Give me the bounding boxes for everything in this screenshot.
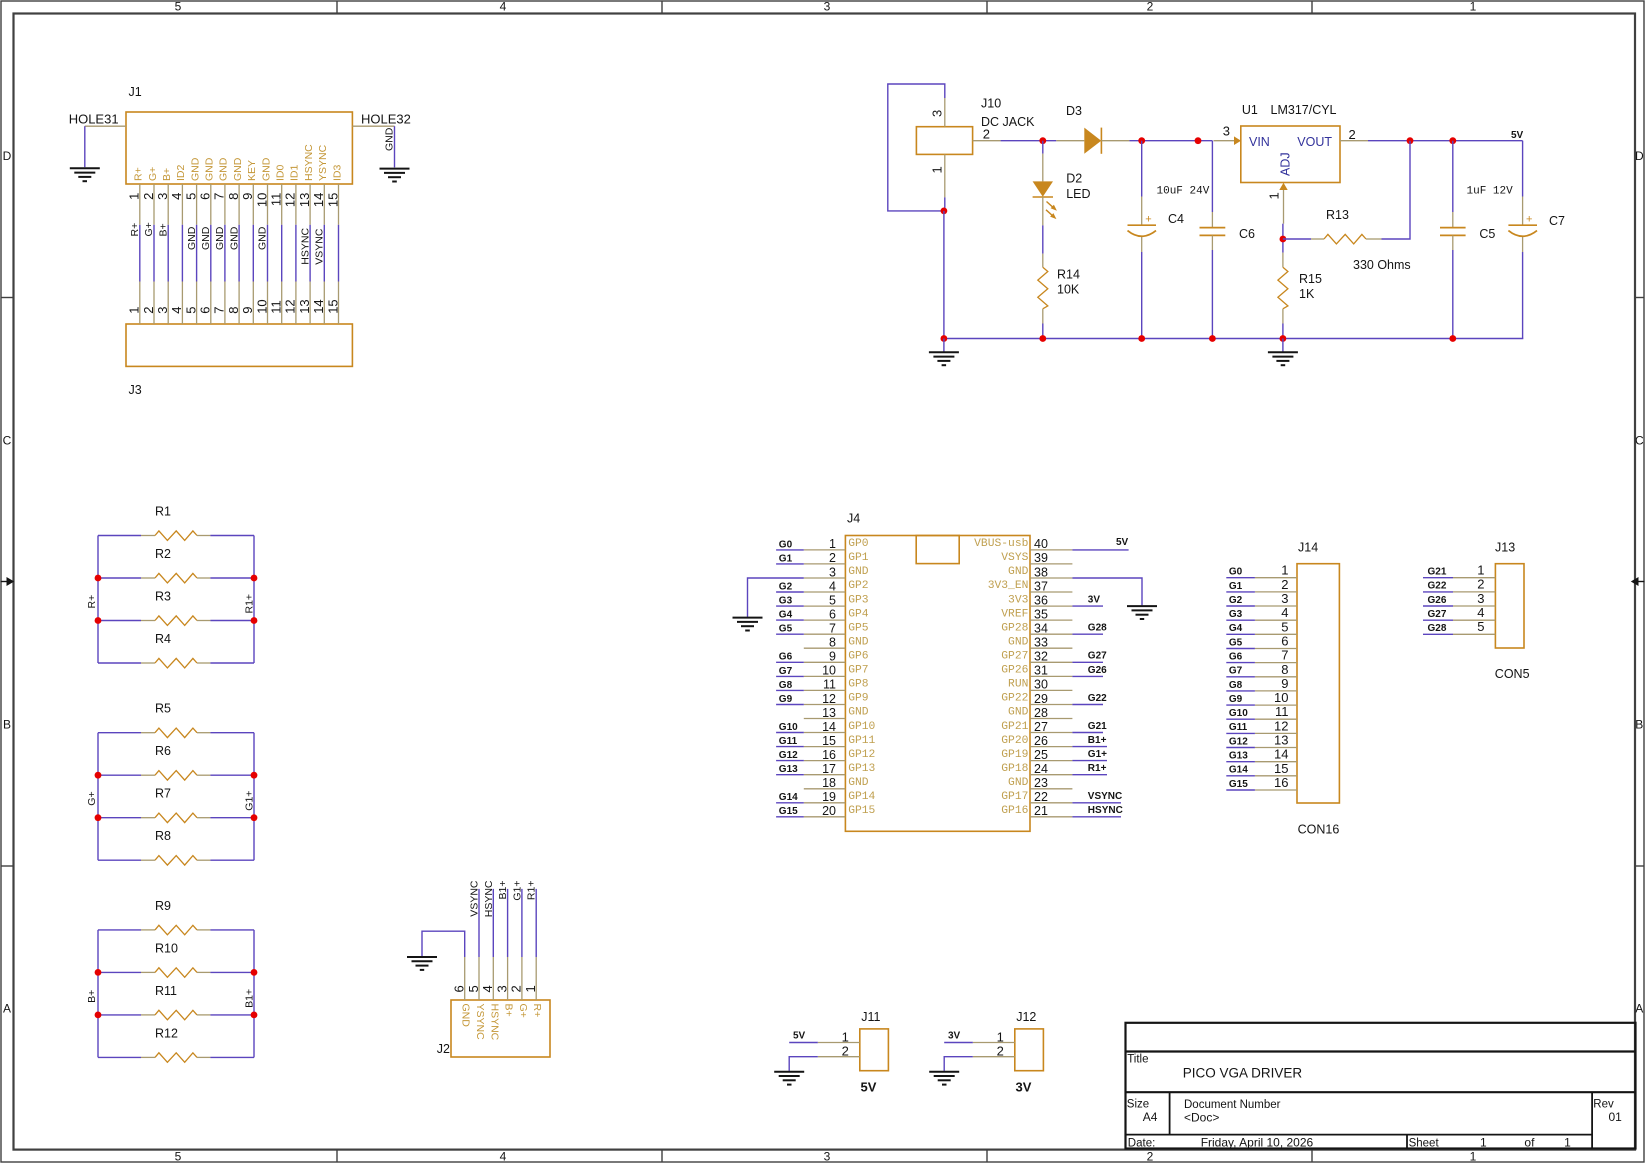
svg-text:G5: G5	[1229, 637, 1243, 648]
J13 net wires	[1423, 578, 1453, 635]
J2 pins 6-1	[452, 957, 539, 1000]
svg-text:5: 5	[175, 0, 182, 14]
svg-text:G9: G9	[1229, 694, 1243, 705]
svg-text:G15: G15	[1229, 779, 1248, 790]
svg-text:GND: GND	[218, 157, 230, 181]
junction right R9-R12	[251, 1012, 258, 1019]
svg-text:GND: GND	[257, 226, 269, 250]
svg-text:ID0: ID0	[275, 165, 287, 182]
wire J4 pin40 5V	[1072, 549, 1128, 551]
svg-text:GP1: GP1	[848, 552, 869, 564]
resistor R2	[98, 547, 254, 583]
capacitor C5	[1440, 141, 1495, 250]
svg-text:G6: G6	[779, 652, 793, 663]
J14 net labels	[1229, 567, 1248, 790]
wire C5 to rail	[1452, 250, 1454, 339]
svg-text:G28: G28	[1428, 623, 1447, 634]
svg-text:27: 27	[1034, 720, 1048, 734]
wire J11 pin2 to ground	[789, 1057, 818, 1071]
svg-text:C6: C6	[1239, 227, 1255, 241]
wire D2 to R14	[1042, 225, 1044, 253]
svg-text:R+: R+	[86, 595, 98, 609]
svg-text:VSYNC: VSYNC	[314, 228, 326, 265]
svg-text:Size: Size	[1127, 1099, 1149, 1111]
junction C4 top	[1138, 137, 1145, 144]
svg-text:GP26: GP26	[1001, 665, 1028, 677]
svg-text:GND: GND	[848, 707, 869, 719]
svg-text:D: D	[1635, 149, 1644, 163]
svg-text:B+: B+	[157, 223, 169, 236]
wire J12 pin1 3V	[944, 1042, 973, 1044]
svg-text:B: B	[3, 717, 11, 731]
svg-text:GND: GND	[460, 1004, 472, 1028]
svg-text:GP2: GP2	[848, 580, 868, 592]
svg-text:3: 3	[1223, 124, 1230, 139]
svg-text:3: 3	[155, 193, 170, 200]
svg-text:10K: 10K	[1057, 283, 1080, 297]
svg-text:A: A	[3, 1002, 11, 1016]
svg-text:R1+: R1+	[526, 881, 538, 901]
svg-text:GND: GND	[189, 157, 201, 181]
svg-text:C5: C5	[1479, 227, 1495, 241]
svg-text:ID2: ID2	[175, 165, 187, 182]
svg-text:J1: J1	[129, 85, 142, 99]
svg-text:4: 4	[1281, 605, 1288, 620]
junction rail/J10	[941, 335, 948, 342]
svg-text:G+: G+	[143, 222, 155, 236]
svg-text:9: 9	[829, 650, 836, 664]
svg-text:GP5: GP5	[848, 622, 869, 634]
svg-text:B+: B+	[503, 1004, 515, 1017]
svg-text:D2: D2	[1066, 172, 1082, 186]
J1-J3 wires	[140, 225, 339, 282]
svg-text:GP15: GP15	[848, 805, 875, 817]
J1-J3 net labels	[129, 222, 326, 265]
svg-text:G28: G28	[1088, 623, 1107, 634]
svg-text:4: 4	[480, 985, 495, 992]
svg-text:R1: R1	[155, 505, 171, 519]
ground at J4 pin3	[733, 618, 763, 631]
svg-text:HSYNC: HSYNC	[1088, 805, 1123, 816]
svg-text:22: 22	[1034, 790, 1048, 804]
svg-text:A4: A4	[1143, 1110, 1158, 1124]
svg-text:11: 11	[1275, 704, 1289, 719]
resistor group R1-R4	[98, 536, 254, 664]
svg-text:2: 2	[842, 1044, 849, 1059]
wire C4 to rail	[1141, 252, 1143, 339]
svg-text:GND: GND	[1008, 707, 1029, 719]
connector J13 CON5	[1495, 541, 1530, 682]
svg-text:10: 10	[822, 664, 836, 678]
svg-text:11: 11	[269, 193, 284, 207]
resistor group R5-R8	[98, 733, 254, 861]
svg-text:9: 9	[240, 193, 255, 200]
svg-text:GND: GND	[383, 127, 395, 151]
svg-text:Date:: Date:	[1128, 1137, 1156, 1149]
svg-text:15: 15	[325, 299, 340, 313]
svg-text:23: 23	[1034, 776, 1048, 790]
wire R14 to rail	[1042, 324, 1044, 339]
svg-text:R7: R7	[155, 787, 171, 801]
svg-text:G7: G7	[779, 666, 793, 677]
svg-text:B1+: B1+	[497, 881, 509, 900]
svg-text:KEY: KEY	[246, 160, 258, 181]
svg-text:34: 34	[1034, 622, 1048, 636]
svg-text:1: 1	[1470, 0, 1477, 14]
svg-text:CON16: CON16	[1298, 823, 1340, 837]
svg-text:2: 2	[509, 985, 524, 992]
svg-text:5V: 5V	[861, 1080, 877, 1095]
junction C6 top	[1195, 137, 1202, 144]
svg-text:G15: G15	[779, 806, 798, 817]
svg-text:G2: G2	[1229, 595, 1243, 606]
svg-text:GND: GND	[204, 157, 216, 181]
module J4 Pico	[845, 512, 1030, 832]
svg-text:VSYNC: VSYNC	[1088, 791, 1122, 802]
svg-text:R10: R10	[155, 941, 178, 955]
junction ADJ node	[1280, 236, 1287, 243]
wire VOUT rail	[1368, 140, 1523, 142]
svg-text:GND: GND	[214, 226, 226, 250]
svg-text:GP9: GP9	[848, 693, 868, 705]
svg-text:5: 5	[175, 1150, 182, 1163]
svg-text:J3: J3	[129, 383, 142, 397]
svg-text:5: 5	[183, 193, 198, 200]
svg-text:9: 9	[1281, 676, 1288, 691]
junction rail/C5	[1449, 335, 1456, 342]
svg-text:G1+: G1+	[244, 791, 256, 811]
LED D2	[1033, 141, 1091, 226]
svg-text:40: 40	[1034, 537, 1048, 551]
svg-text:GP8: GP8	[848, 679, 869, 691]
svg-text:4: 4	[169, 193, 184, 200]
svg-text:G21: G21	[1428, 567, 1447, 578]
wire J10 pin2 to D3	[1001, 140, 1057, 142]
svg-text:G14: G14	[1229, 765, 1248, 776]
svg-text:R+: R+	[129, 223, 141, 237]
svg-text:GND: GND	[848, 566, 869, 578]
svg-text:1: 1	[997, 1030, 1004, 1045]
svg-text:2: 2	[1147, 1150, 1154, 1163]
connector J3	[126, 324, 352, 397]
junction left R9-R12	[95, 969, 102, 976]
svg-text:G1+: G1+	[1088, 749, 1107, 760]
junction R13 feedback	[1407, 137, 1414, 144]
svg-text:HSYNC: HSYNC	[299, 228, 311, 265]
regulator U1 LM317/CYL	[1214, 103, 1369, 224]
svg-text:GP3: GP3	[848, 594, 869, 606]
svg-text:G8: G8	[1229, 680, 1243, 691]
resistor R12	[98, 1026, 254, 1062]
svg-text:10uF 24V: 10uF 24V	[1157, 186, 1210, 198]
svg-text:J14: J14	[1298, 541, 1318, 555]
svg-text:8: 8	[1281, 662, 1288, 677]
svg-text:14: 14	[822, 720, 836, 734]
svg-text:GND: GND	[848, 777, 869, 789]
svg-text:GP10: GP10	[848, 721, 875, 733]
svg-text:5: 5	[1477, 619, 1484, 634]
svg-text:G+: G+	[147, 167, 159, 181]
svg-text:G14: G14	[779, 792, 798, 803]
svg-text:32: 32	[1034, 650, 1048, 664]
svg-text:J13: J13	[1495, 541, 1515, 555]
svg-text:1: 1	[1480, 1135, 1487, 1149]
resistor R6	[98, 744, 254, 780]
svg-text:10: 10	[254, 299, 269, 313]
svg-text:16: 16	[1274, 775, 1288, 790]
svg-text:1: 1	[1564, 1135, 1571, 1149]
svg-text:29: 29	[1034, 692, 1048, 706]
svg-text:B: B	[1635, 717, 1643, 731]
svg-text:J10: J10	[981, 97, 1001, 111]
svg-text:Friday, April 10, 2026: Friday, April 10, 2026	[1201, 1135, 1314, 1149]
svg-text:8: 8	[226, 193, 241, 200]
svg-text:Title: Title	[1127, 1053, 1148, 1065]
connector J2	[437, 1000, 550, 1057]
svg-text:G6: G6	[1229, 652, 1243, 663]
junction rail/C6	[1209, 335, 1216, 342]
junction right R5-R8	[251, 772, 258, 779]
svg-text:3V: 3V	[1088, 595, 1101, 606]
svg-text:G5: G5	[779, 624, 793, 635]
svg-text:12: 12	[822, 692, 836, 706]
svg-text:R11: R11	[155, 984, 177, 998]
J14 pins 1-16	[1255, 563, 1297, 790]
svg-text:6: 6	[1281, 634, 1288, 649]
wire C6 to rail	[1211, 250, 1213, 339]
junction J10 pin1/pin3	[941, 208, 948, 215]
wire J4 pin38 to ground	[1072, 578, 1142, 605]
svg-text:5: 5	[466, 985, 481, 992]
svg-text:13: 13	[1274, 733, 1288, 748]
svg-text:CON5: CON5	[1495, 667, 1530, 681]
connector J1	[126, 85, 352, 184]
svg-text:R9: R9	[155, 899, 171, 913]
svg-text:3: 3	[1281, 591, 1288, 606]
J13 net labels	[1428, 567, 1447, 635]
svg-text:G12: G12	[1229, 736, 1248, 747]
svg-text:39: 39	[1034, 551, 1048, 565]
svg-text:C7: C7	[1549, 214, 1565, 228]
resistor R7	[98, 787, 254, 823]
svg-text:4: 4	[500, 1150, 507, 1163]
svg-text:G12: G12	[779, 750, 798, 761]
svg-text:1: 1	[1470, 1150, 1477, 1163]
svg-text:G1+: G1+	[511, 881, 523, 901]
svg-text:G8: G8	[779, 680, 793, 691]
svg-text:R6: R6	[155, 744, 171, 758]
svg-text:GP20: GP20	[1001, 735, 1028, 747]
svg-text:8: 8	[829, 636, 836, 650]
svg-text:14: 14	[311, 299, 326, 313]
svg-text:1: 1	[930, 166, 945, 173]
connector J10 DC JACK	[916, 97, 1035, 198]
svg-text:4: 4	[169, 307, 184, 314]
svg-text:1: 1	[1281, 563, 1288, 578]
svg-text:GP6: GP6	[848, 651, 869, 663]
svg-text:1: 1	[523, 985, 538, 992]
svg-text:YSYNC: YSYNC	[317, 144, 329, 181]
connector J14 CON16	[1297, 541, 1339, 837]
svg-text:R1+: R1+	[244, 594, 256, 614]
svg-text:HSYNC: HSYNC	[483, 880, 495, 917]
wire R13 to VOUT	[1382, 141, 1411, 239]
svg-text:GP11: GP11	[848, 735, 875, 747]
wire rail to ground	[943, 339, 945, 352]
svg-text:G26: G26	[1428, 595, 1447, 606]
svg-text:15: 15	[822, 734, 836, 748]
sheet mid-edge arrow left	[1, 577, 15, 586]
sheet mid-edge arrow right	[1631, 577, 1645, 586]
resistor R1	[98, 505, 254, 541]
svg-text:G4: G4	[1229, 623, 1243, 634]
svg-text:4: 4	[829, 579, 836, 593]
svg-text:5: 5	[183, 307, 198, 314]
svg-text:5: 5	[1281, 619, 1288, 634]
svg-text:GND: GND	[848, 637, 869, 649]
svg-text:ID3: ID3	[331, 165, 343, 182]
junction rail/R14	[1039, 335, 1046, 342]
svg-text:C: C	[3, 433, 12, 447]
svg-text:6: 6	[829, 607, 836, 621]
svg-text:VREF: VREF	[1001, 608, 1028, 620]
svg-text:3: 3	[824, 0, 831, 14]
svg-text:2: 2	[829, 551, 836, 565]
J14 net wires G0-G15	[1226, 578, 1255, 790]
svg-text:R4: R4	[155, 632, 171, 646]
svg-text:7: 7	[829, 622, 836, 636]
svg-text:G+: G+	[517, 1004, 529, 1018]
svg-text:33: 33	[1034, 636, 1048, 650]
svg-text:12: 12	[1274, 718, 1288, 733]
svg-text:of: of	[1524, 1135, 1535, 1149]
wire J4 pin3 to ground	[748, 578, 804, 617]
svg-text:3V: 3V	[1016, 1080, 1032, 1095]
svg-text:R+: R+	[531, 1004, 543, 1018]
svg-text:13: 13	[297, 193, 312, 207]
svg-text:16: 16	[822, 748, 836, 762]
junction right R9-R12	[251, 969, 258, 976]
wire D3 to U1	[1129, 140, 1212, 142]
svg-text:38: 38	[1034, 565, 1048, 579]
wire ground rail	[944, 338, 1523, 340]
junction left R1-R4	[95, 617, 102, 624]
junction left R5-R8	[95, 772, 102, 779]
svg-text:G3: G3	[779, 596, 793, 607]
ground at HOLE31	[70, 168, 100, 181]
svg-text:G13: G13	[1229, 751, 1248, 762]
svg-text:3: 3	[824, 1150, 831, 1163]
svg-text:J2: J2	[437, 1042, 450, 1056]
svg-text:GND: GND	[1008, 637, 1029, 649]
svg-text:5: 5	[829, 593, 836, 607]
svg-text:26: 26	[1034, 734, 1048, 748]
svg-text:<Doc>: <Doc>	[1184, 1111, 1219, 1125]
svg-text:15: 15	[1274, 761, 1288, 776]
svg-text:R14: R14	[1057, 268, 1080, 282]
svg-text:VOUT: VOUT	[1297, 135, 1332, 149]
svg-text:GP28: GP28	[1001, 622, 1028, 634]
svg-text:5V: 5V	[793, 1031, 806, 1042]
svg-text:37: 37	[1034, 579, 1048, 593]
diode D3	[1056, 104, 1129, 154]
svg-text:U1: U1	[1242, 103, 1258, 117]
svg-text:1: 1	[829, 537, 836, 551]
ground at J12	[929, 1072, 959, 1085]
junction right R1-R4	[251, 617, 258, 624]
title block	[1126, 1023, 1636, 1149]
svg-text:J11: J11	[861, 1010, 880, 1024]
ground at power input	[929, 352, 959, 365]
junction VIN rail / D2 branch	[1039, 137, 1046, 144]
wire J10 pin1 to node	[944, 197, 946, 211]
svg-text:3V3_EN: 3V3_EN	[988, 580, 1029, 592]
ground at J4 pin38	[1127, 606, 1157, 619]
svg-text:12: 12	[283, 299, 298, 313]
svg-text:G26: G26	[1088, 665, 1107, 676]
svg-text:3V3: 3V3	[1008, 594, 1029, 606]
svg-text:1K: 1K	[1299, 287, 1315, 301]
mounting hole HOLE32	[352, 112, 410, 168]
svg-text:VIN: VIN	[1249, 135, 1270, 149]
svg-text:18: 18	[822, 776, 836, 790]
svg-text:25: 25	[1034, 748, 1048, 762]
svg-text:6: 6	[452, 985, 467, 992]
svg-text:G3: G3	[1229, 609, 1243, 620]
svg-text:Document Number: Document Number	[1184, 1099, 1281, 1111]
svg-text:17: 17	[822, 762, 836, 776]
svg-text:3V: 3V	[948, 1031, 961, 1042]
svg-text:G11: G11	[1229, 722, 1248, 733]
svg-text:HOLE32: HOLE32	[361, 112, 411, 127]
svg-text:G22: G22	[1088, 693, 1107, 704]
junction left R1-R4	[95, 575, 102, 582]
svg-text:G0: G0	[1229, 567, 1243, 578]
svg-text:R+: R+	[133, 167, 145, 181]
svg-text:HSYNC: HSYNC	[303, 144, 315, 181]
svg-text:14: 14	[311, 193, 326, 207]
junction right R5-R8	[251, 814, 258, 821]
svg-text:GP13: GP13	[848, 763, 875, 775]
svg-text:36: 36	[1034, 593, 1048, 607]
svg-text:20: 20	[822, 804, 836, 818]
svg-text:YSYNC: YSYNC	[474, 1004, 486, 1041]
svg-text:GP22: GP22	[1001, 693, 1028, 705]
svg-text:VBUS-usb: VBUS-usb	[974, 538, 1028, 550]
svg-text:GP16: GP16	[1001, 805, 1028, 817]
junction left R9-R12	[95, 1012, 102, 1019]
svg-text:3: 3	[930, 110, 945, 117]
svg-text:G10: G10	[1229, 708, 1248, 719]
svg-text:A: A	[1635, 1002, 1643, 1016]
svg-text:G4: G4	[779, 610, 793, 621]
svg-text:GND: GND	[228, 226, 240, 250]
svg-text:D3: D3	[1066, 104, 1082, 118]
J4 left pins	[804, 537, 846, 818]
svg-text:R8: R8	[155, 829, 171, 843]
svg-text:11: 11	[823, 678, 836, 692]
svg-text:G+: G+	[86, 791, 98, 805]
resistor R13 330 Ohms	[1283, 208, 1411, 272]
ground at R15	[1268, 352, 1298, 365]
J2 net wires	[479, 889, 536, 957]
ground at J11	[774, 1072, 804, 1085]
svg-text:G9: G9	[779, 694, 793, 705]
svg-text:28: 28	[1034, 706, 1048, 720]
svg-text:13: 13	[297, 299, 312, 313]
svg-text:HOLE31: HOLE31	[69, 112, 119, 127]
svg-text:1uF 12V: 1uF 12V	[1467, 186, 1514, 198]
